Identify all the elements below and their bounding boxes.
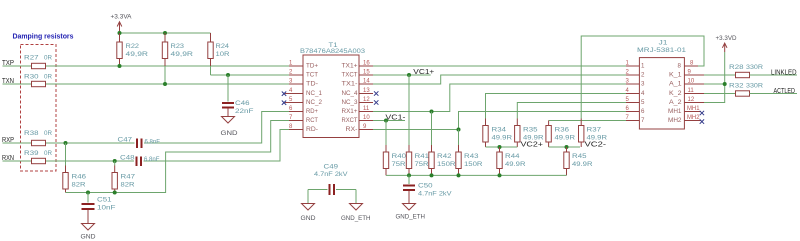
svg-text:10nF: 10nF	[97, 205, 116, 212]
svg-text:R36: R36	[555, 127, 570, 134]
svg-text:82R: 82R	[121, 182, 135, 189]
svg-text:C51: C51	[97, 197, 112, 204]
resistor R43	[456, 130, 483, 176]
svg-text:1: 1	[641, 62, 645, 69]
T1 pin 3 TD-	[289, 79, 318, 88]
wire TXCT stub VC1+	[373, 74, 431, 76]
svg-text:12: 12	[688, 97, 695, 103]
svg-text:GND: GND	[81, 234, 96, 241]
svg-text:15: 15	[363, 70, 370, 76]
svg-text:RD-: RD-	[306, 126, 318, 133]
svg-text:13: 13	[363, 88, 370, 94]
svg-text:0R: 0R	[44, 55, 52, 62]
resistor R45	[564, 147, 593, 175]
resistor R28	[729, 64, 763, 78]
wire RX1+ T1.11	[373, 84, 626, 112]
svg-text:K_2: K_2	[669, 90, 682, 97]
svg-text:TD+: TD+	[306, 62, 318, 69]
J1 pin MH2 no-connect	[668, 115, 704, 124]
junction rail R22	[118, 31, 122, 35]
wire TXN to T1 pin 3	[46, 83, 290, 85]
svg-text:49.9R: 49.9R	[555, 134, 576, 141]
J1 pin 6	[626, 106, 646, 115]
svg-text:R40: R40	[392, 153, 407, 160]
J1 pin 12 A_2	[669, 97, 704, 106]
svg-text:R22: R22	[126, 43, 140, 50]
svg-text:K_1: K_1	[669, 71, 682, 78]
svg-text:150R: 150R	[464, 161, 483, 168]
wire RXP middle to C47	[46, 142, 135, 144]
ground GND under C51	[81, 224, 96, 241]
T1 pin 14 TX1-	[342, 79, 374, 88]
T1 pin 15 TXCT	[342, 70, 374, 79]
node VC2+	[486, 142, 544, 149]
wire RXN after C48 to T1 pin 8	[144, 130, 290, 162]
svg-text:R39: R39	[24, 150, 39, 157]
svg-text:GND: GND	[301, 215, 316, 222]
resistor R23	[162, 33, 193, 84]
capacitor C46	[222, 75, 254, 117]
svg-text:330R: 330R	[746, 64, 763, 71]
svg-text:3: 3	[641, 80, 645, 87]
svg-text:49.9R: 49.9R	[572, 161, 593, 168]
J1 pin 1	[626, 61, 646, 70]
svg-text:TX1+: TX1+	[342, 62, 358, 69]
J1 pin MH1 no-connect	[668, 106, 704, 115]
junction VC2-/R45	[565, 145, 569, 149]
transformer U T1 B78476A8245A003	[300, 42, 365, 138]
T1 pin 11 RX1+	[342, 106, 374, 115]
svg-text:49.9R: 49.9R	[587, 134, 608, 141]
resistor R38	[24, 130, 52, 146]
svg-text:11: 11	[363, 106, 370, 112]
wire R32 to ACTLED	[750, 93, 798, 95]
junction +3.3VD/A_1	[723, 82, 727, 86]
wire TXP to T1 pin 1	[46, 65, 290, 67]
svg-text:8: 8	[678, 62, 682, 69]
wire TCT to T1 pin 2	[211, 74, 290, 76]
wire RX- T1.9 jog up to J1.6	[373, 112, 626, 130]
svg-text:VC2+: VC2+	[521, 142, 544, 149]
svg-text:+3.3VA: +3.3VA	[111, 14, 133, 21]
svg-text:RXCT: RXCT	[342, 117, 358, 124]
J1 pin 4	[626, 88, 646, 97]
svg-text:49.9R: 49.9R	[492, 134, 513, 141]
svg-text:MH1: MH1	[687, 106, 700, 112]
power +3.3VD	[716, 35, 737, 52]
svg-text:R47: R47	[121, 174, 136, 181]
svg-text:4: 4	[641, 90, 645, 97]
junction RXCT/R40	[384, 119, 388, 123]
svg-text:R37: R37	[587, 127, 602, 134]
svg-text:ACTLED: ACTLED	[774, 88, 796, 95]
resistor R41	[406, 75, 429, 175]
svg-text:4.7nF 2kV: 4.7nF 2kV	[314, 171, 348, 178]
capacitor C51	[82, 193, 116, 224]
svg-text:J1: J1	[659, 40, 668, 47]
junction rail/R44	[498, 173, 502, 177]
wire RXP after C47 to T1 pin 6	[144, 112, 289, 144]
T1 pin 5 NC_2 no-connect	[282, 97, 323, 106]
svg-text:VC2-: VC2-	[585, 142, 607, 149]
svg-text:6.8nF: 6.8nF	[145, 139, 161, 146]
svg-text:R38: R38	[24, 130, 39, 137]
svg-text:A_1: A_1	[669, 80, 682, 87]
capacitor C47	[118, 137, 161, 149]
svg-text:2: 2	[641, 71, 645, 78]
junction R23/TXN	[163, 82, 167, 86]
capacitor C49	[308, 164, 356, 196]
svg-text:TD-: TD-	[306, 80, 318, 87]
resistor R47	[112, 161, 135, 193]
svg-text:14: 14	[363, 79, 370, 85]
resistor R40	[383, 121, 406, 176]
junction TCT/C46	[226, 73, 230, 77]
wire R28 to LINKLED	[750, 74, 798, 76]
svg-text:75R: 75R	[415, 161, 429, 168]
wire TX1- T1.14 jog up to J1.2	[373, 75, 626, 84]
svg-text:C48: C48	[120, 155, 135, 162]
J1 pin 9 K_1	[669, 70, 704, 79]
T1 pin 4 NC_1 no-connect	[282, 88, 323, 97]
svg-text:RCT: RCT	[306, 117, 318, 124]
wire RXN left	[3, 160, 32, 162]
junction RXN/R47	[113, 159, 117, 163]
svg-text:10R: 10R	[216, 51, 230, 58]
J1 pin 5	[626, 97, 646, 106]
svg-text:R34: R34	[492, 127, 507, 134]
wire RXN middle to C48	[46, 160, 135, 162]
wire TX1+ T1.16 to J1.1	[373, 65, 626, 67]
svg-text:MH1: MH1	[668, 108, 682, 115]
svg-text:6: 6	[641, 108, 645, 115]
svg-text:MRJ-5381-01: MRJ-5381-01	[637, 47, 686, 54]
svg-text:C46: C46	[235, 100, 250, 107]
J1 pin 3	[626, 79, 646, 88]
svg-text:GND: GND	[221, 130, 238, 137]
wire A_1 to +3.3VD	[704, 83, 725, 85]
T1 pin 1 TD+	[289, 61, 318, 70]
svg-text:LINKLED: LINKLED	[771, 70, 797, 77]
junction TXCT/R41	[407, 73, 411, 77]
svg-text:22nF: 22nF	[235, 108, 254, 115]
svg-text:TX1-: TX1-	[342, 80, 358, 87]
J1 pin 11 K_2	[669, 88, 704, 97]
T1 pin 8 RD-	[289, 124, 318, 133]
svg-text:10: 10	[363, 115, 370, 121]
svg-text:Damping resistors: Damping resistors	[13, 32, 74, 41]
J1 pin 2	[626, 70, 646, 79]
svg-text:GND_ETH: GND_ETH	[341, 215, 371, 222]
capacitor C48	[120, 155, 160, 167]
T1 pin 9 RX-	[346, 124, 374, 133]
wire +3.3VA rail	[120, 32, 211, 34]
resistor R42	[429, 112, 456, 176]
svg-text:R24: R24	[216, 43, 230, 50]
resistor R24	[208, 33, 230, 75]
svg-text:TXCT: TXCT	[342, 71, 358, 78]
node VC2-	[549, 142, 607, 149]
wire TXN left	[3, 83, 32, 85]
svg-text:R35: R35	[523, 127, 538, 134]
svg-text:VC1+: VC1+	[413, 69, 434, 76]
svg-text:0R: 0R	[44, 74, 52, 81]
resistor R30	[24, 74, 52, 87]
svg-text:MH2: MH2	[668, 117, 682, 124]
capacitor C50	[403, 175, 452, 203]
svg-text:GND_ETH: GND_ETH	[396, 214, 426, 221]
svg-text:49.9R: 49.9R	[505, 161, 526, 168]
power +3.3VA	[111, 14, 133, 34]
wire R37 to J1.8 over the top	[581, 36, 704, 119]
T1 pin 13 NC_4 no-connect	[342, 88, 379, 97]
svg-text:R46: R46	[72, 174, 87, 181]
J1 pin 8 top right	[678, 61, 699, 70]
wire RXP left	[3, 142, 32, 144]
svg-text:NC_2: NC_2	[306, 99, 323, 106]
svg-text:MH2: MH2	[687, 115, 700, 121]
resistor R46	[63, 143, 86, 193]
svg-text:16: 16	[363, 61, 370, 67]
svg-text:0R: 0R	[44, 130, 52, 137]
wire R36 to J1.7	[549, 120, 626, 122]
junction RX1+/R42	[430, 110, 434, 114]
svg-text:49,9R: 49,9R	[126, 51, 149, 58]
resistor R34	[483, 119, 512, 148]
junction rail/C51	[86, 191, 90, 195]
svg-text:R23: R23	[171, 43, 185, 50]
T1 pin 2 TCT	[289, 70, 318, 79]
svg-text:VC1-: VC1-	[385, 115, 406, 122]
resistor R37	[579, 119, 608, 148]
svg-text:R27: R27	[24, 55, 39, 62]
svg-text:49.9R: 49.9R	[523, 134, 544, 141]
T1 pin 6 RD+	[289, 106, 318, 115]
junction RXP/R46	[64, 141, 68, 145]
svg-text:7: 7	[641, 117, 645, 124]
svg-text:RX-: RX-	[346, 126, 358, 133]
svg-text:11: 11	[688, 88, 695, 94]
T1 pin 10 RXCT	[342, 115, 374, 124]
svg-text:10: 10	[688, 79, 695, 85]
resistor R44	[497, 147, 526, 175]
svg-text:0R: 0R	[44, 150, 52, 157]
svg-text:75R: 75R	[392, 161, 406, 168]
svg-text:5: 5	[641, 99, 645, 106]
svg-text:R43: R43	[464, 153, 479, 160]
T1 pin 7 RCT	[289, 115, 318, 124]
wire R35 to J1.5	[517, 103, 626, 119]
svg-text:NC_4: NC_4	[342, 90, 359, 97]
resistor R35	[515, 119, 544, 148]
junction rail/R47	[113, 191, 117, 195]
svg-text:4.7nF 2kV: 4.7nF 2kV	[418, 191, 452, 198]
svg-text:R45: R45	[572, 153, 587, 160]
resistor R36	[546, 121, 575, 148]
junction rail/R41/C50	[407, 173, 411, 177]
svg-text:RD+: RD+	[306, 108, 318, 115]
dashed graphic box around damping resistors	[21, 45, 57, 172]
svg-text:6.8nF: 6.8nF	[144, 156, 160, 163]
ground GND under C46	[221, 117, 238, 138]
svg-text:49,9R: 49,9R	[171, 51, 194, 58]
junction RX-/R43	[457, 128, 461, 132]
wire RCT rail from R46/R47 to T1 pin 7	[66, 121, 290, 193]
svg-text:NC_1: NC_1	[306, 90, 323, 97]
resistor R27	[24, 55, 52, 69]
J1 pin 7	[626, 115, 646, 124]
wire +3.3VD to LED anodes	[704, 52, 725, 103]
svg-text:C50: C50	[418, 183, 433, 190]
svg-text:R32: R32	[729, 83, 744, 90]
wire bottom termination rail	[386, 174, 567, 176]
wire R34 to J1.4	[486, 94, 627, 119]
wire RXCT stub VC1-	[373, 120, 405, 122]
ground GND_ETH right of C49	[341, 190, 371, 223]
svg-text:C49: C49	[324, 164, 339, 171]
svg-text:R44: R44	[505, 153, 520, 160]
svg-text:NC_3: NC_3	[342, 99, 359, 106]
wire K_1 to R28	[704, 74, 736, 76]
resistor R32	[729, 83, 763, 97]
junction rail R23	[163, 31, 167, 35]
resistor R22	[117, 33, 148, 66]
svg-text:TCT: TCT	[306, 71, 318, 78]
svg-text:R30: R30	[24, 74, 39, 81]
svg-text:RX1+: RX1+	[342, 108, 358, 115]
svg-text:150R: 150R	[437, 161, 456, 168]
junction VC2+/R44	[498, 145, 502, 149]
svg-text:82R: 82R	[72, 182, 86, 189]
svg-text:12: 12	[363, 97, 370, 103]
ground GND left of C49	[301, 190, 316, 223]
junction rail/R42	[430, 173, 434, 177]
svg-text:C47: C47	[118, 137, 133, 144]
J1 pin 10 A_1	[669, 79, 704, 88]
ground GND_ETH under C50	[396, 204, 426, 221]
connector J1 MRJ-5381-01	[637, 40, 686, 130]
svg-text:330R: 330R	[746, 83, 763, 90]
resistor R39	[24, 150, 52, 164]
junction rail/R43	[457, 173, 461, 177]
svg-text:A_2: A_2	[669, 99, 682, 106]
svg-text:R28: R28	[729, 64, 744, 71]
svg-text:R41: R41	[415, 153, 430, 160]
T1 pin 12 NC_3 no-connect	[342, 97, 379, 106]
wire TXP left	[3, 65, 32, 67]
svg-text:+3.3VD: +3.3VD	[716, 35, 737, 42]
svg-text:B78476A8245A003: B78476A8245A003	[300, 48, 365, 55]
T1 pin 16 TX1+	[342, 61, 374, 70]
svg-text:R42: R42	[437, 153, 452, 160]
junction R22/TXP	[118, 64, 122, 68]
wire K_2 to R32	[704, 93, 736, 95]
